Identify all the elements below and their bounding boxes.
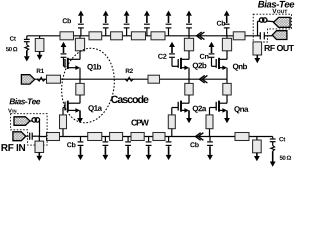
transmission line stub (top-left) [35, 39, 44, 52]
wire [256, 137, 258, 141]
ground (arrow above Cn) [209, 42, 215, 53]
inductor (bias tee input choke) [32, 118, 40, 122]
transmission line stub (gate line left termination) [35, 141, 44, 152]
wire [226, 51, 228, 60]
transmission line section B4 (gate line) [131, 133, 144, 141]
capacitor Cb / ground stub 6 (top) [186, 11, 192, 36]
wire (gate of Q2a) [172, 108, 178, 115]
transmission line stub (drain line right termination) [253, 42, 262, 55]
transmission line stub (gate line right termination) [253, 140, 262, 153]
wire [188, 68, 190, 80]
wire [26, 135, 29, 137]
label RF IN [1, 144, 25, 151]
wire (gate of Q1b) [64, 58, 66, 66]
ground (arrow below top-left stub) [37, 52, 43, 61]
label VIN [8, 109, 16, 113]
wire (gate of Qnb) [212, 58, 217, 66]
wire [26, 42, 28, 45]
transmission line section T2 (drain line) [89, 32, 102, 40]
transmission line (cascode mid stub 1) [76, 83, 84, 95]
capacitor (bias tee input DC block) [30, 133, 33, 140]
wire [79, 95, 81, 103]
bias-tee dashed outline (output) [253, 14, 291, 42]
label Cb (top right) [217, 21, 225, 26]
capacitor (bias tee output DC block) [260, 32, 264, 39]
label Q1b [87, 64, 101, 71]
ground (below right drain termination) [254, 55, 260, 63]
capacitor Ct (right) [270, 139, 276, 142]
wire top-left corner [26, 36, 28, 39]
label Q2b [193, 62, 207, 69]
resistor R2 [125, 77, 133, 81]
transistor Q1b [65, 58, 80, 70]
wire (gate of Qna) [210, 108, 217, 115]
wire [226, 95, 228, 103]
wire [30, 120, 33, 122]
capacitor Cb / ground stub 7 (top) [224, 11, 230, 36]
transmission line (drain stub Q1b) [75, 38, 84, 51]
ground (source of Q2a) [186, 110, 192, 123]
transmission line (cascode mid stub 2) [185, 83, 193, 95]
transmission line (drain stub Q2b) [184, 38, 193, 51]
capacitor Cb / ground stub 1 (top) [78, 11, 84, 36]
wire (gate of Q1a) [63, 108, 65, 115]
capacitor Cb / ground stub 4 (bottom) [146, 137, 152, 161]
resistor R1 [37, 77, 45, 81]
transistor Q1a [65, 101, 80, 113]
ground (right termination arrow) [270, 151, 276, 167]
capacitor Ct (left) [24, 39, 30, 41]
wire (gate of Q2b) [172, 58, 178, 66]
port VIN pentagon [14, 117, 30, 126]
capacitor Cb / ground stub 2 (top) [103, 11, 109, 36]
wire [266, 20, 274, 23]
wire [38, 137, 40, 142]
label Cb (bottom right) [190, 142, 198, 147]
label VOUT [272, 9, 287, 13]
wire [62, 129, 64, 137]
ground (below left gate termination) [36, 153, 42, 162]
transmission line section M2 (mid line) [148, 75, 160, 83]
transmission line section B2 (gate line) [88, 133, 102, 141]
transmission line (gate stub 1) [60, 115, 67, 129]
transmission line section T5 (drain line) [151, 32, 165, 40]
inductor (bias tee output choke) [259, 18, 267, 22]
transmission line section M1 (mid line) [47, 75, 61, 83]
label 50 Ohm (left) [6, 47, 17, 51]
label CPW [131, 119, 149, 125]
wire [272, 142, 274, 146]
wire bottom-right corner [272, 137, 274, 139]
label Q2a [193, 106, 207, 113]
label R2 [126, 69, 133, 73]
transmission line (cascode mid stub n) [223, 83, 231, 95]
line break (mid line) [200, 75, 208, 83]
ground (arrow above C1) [61, 42, 67, 53]
label Bias-Tee (input) [9, 98, 40, 104]
wire [226, 79, 228, 83]
ground (arrow above C2) [169, 42, 175, 53]
wire [39, 36, 41, 39]
capacitor Cb / ground stub 2 (bottom) [103, 137, 109, 161]
ground (source of Q1a) [77, 110, 83, 123]
wire [264, 35, 272, 37]
label Q1a [88, 105, 102, 112]
label RF OUT [265, 45, 294, 51]
bias-tee dashed outline (input) [11, 114, 48, 145]
capacitor Cb / ground stub 3 (bottom) [125, 137, 131, 161]
transistor Q2a [178, 101, 189, 113]
transistor Qnb [216, 58, 227, 70]
wire [38, 121, 41, 137]
wire drain line (top) [27, 35, 260, 37]
label Cascode [111, 95, 148, 103]
label Ct (left) [10, 36, 16, 40]
transmission line (drain stub Qnb) [222, 38, 231, 51]
wire [226, 36, 228, 39]
wire [188, 95, 190, 103]
label R1 [37, 69, 44, 73]
wire [226, 68, 228, 80]
label 50 Ohm (right) [280, 156, 291, 160]
transmission line section T3 (drain line) [111, 32, 123, 40]
label C2 [158, 54, 166, 59]
line break (drain line) [197, 32, 205, 40]
capacitor Cb / ground stub 5 (bottom) [166, 137, 172, 161]
transmission line section T1 (drain line) [60, 32, 74, 40]
ground (source of Qna) [224, 110, 230, 123]
transmission line (gate stub 2) [168, 115, 175, 129]
ground (left termination arrow) [24, 51, 30, 62]
wire [79, 68, 81, 80]
transmission line section B6 (gate line) [235, 133, 249, 141]
wire [171, 129, 173, 137]
transistor Q2b [178, 58, 189, 70]
resistor 50 Ohm (right) [271, 146, 275, 152]
transmission line section B1 (gate line) [47, 133, 60, 141]
port VG2 (mid line pentagon) [21, 75, 34, 84]
cascode dashed ellipse [56, 44, 119, 126]
wire [79, 36, 81, 39]
wire [209, 129, 211, 137]
ground (below right gate termination) [254, 153, 260, 161]
capacitor Cb / ground stub 1 (bottom) [78, 137, 84, 161]
transmission line section T4 (drain line) [131, 32, 145, 40]
transmission line (gate stub n) [206, 115, 213, 129]
capacitor C1 plates [61, 54, 67, 57]
wire [258, 21, 261, 36]
wire cascode mid line [35, 78, 227, 80]
capacitor Cb / ground stub 3 (top) [124, 11, 130, 36]
port RF OUT pentagon [272, 31, 287, 40]
capacitor Cn plates [209, 54, 215, 57]
label Bias-Tee (output) [258, 1, 294, 8]
transmission line section B5 (gate line) [153, 133, 165, 141]
label Cb (bottom left) [67, 142, 75, 147]
label Qnb [233, 63, 247, 70]
wire [79, 79, 81, 83]
transistor Qna [216, 101, 227, 113]
label Cb (top left) [63, 18, 71, 23]
label Ct (right) [279, 137, 285, 141]
port VOUT pentagon [274, 17, 291, 27]
capacitor Cb / ground stub 6 (bottom) [207, 137, 213, 161]
capacitor C2 plates [169, 54, 175, 57]
port RF IN pentagon [13, 132, 26, 141]
wire [188, 51, 190, 60]
capacitor Cb / ground stub 4 (top) [144, 11, 150, 36]
wire gate line (bottom) [40, 136, 273, 138]
label Qna [234, 106, 248, 113]
resistor 50 Ohm (left) [25, 45, 29, 51]
line break (gate line) [196, 133, 204, 141]
wire [188, 79, 190, 83]
wire [79, 51, 81, 60]
transmission line section T6 (drain line) [233, 32, 245, 40]
wire [32, 135, 39, 137]
wire [188, 36, 190, 39]
label Cn [200, 54, 209, 59]
transmission line section B3 (gate line) [110, 133, 123, 141]
capacitor Cb / ground stub 5 (top) [166, 11, 172, 36]
